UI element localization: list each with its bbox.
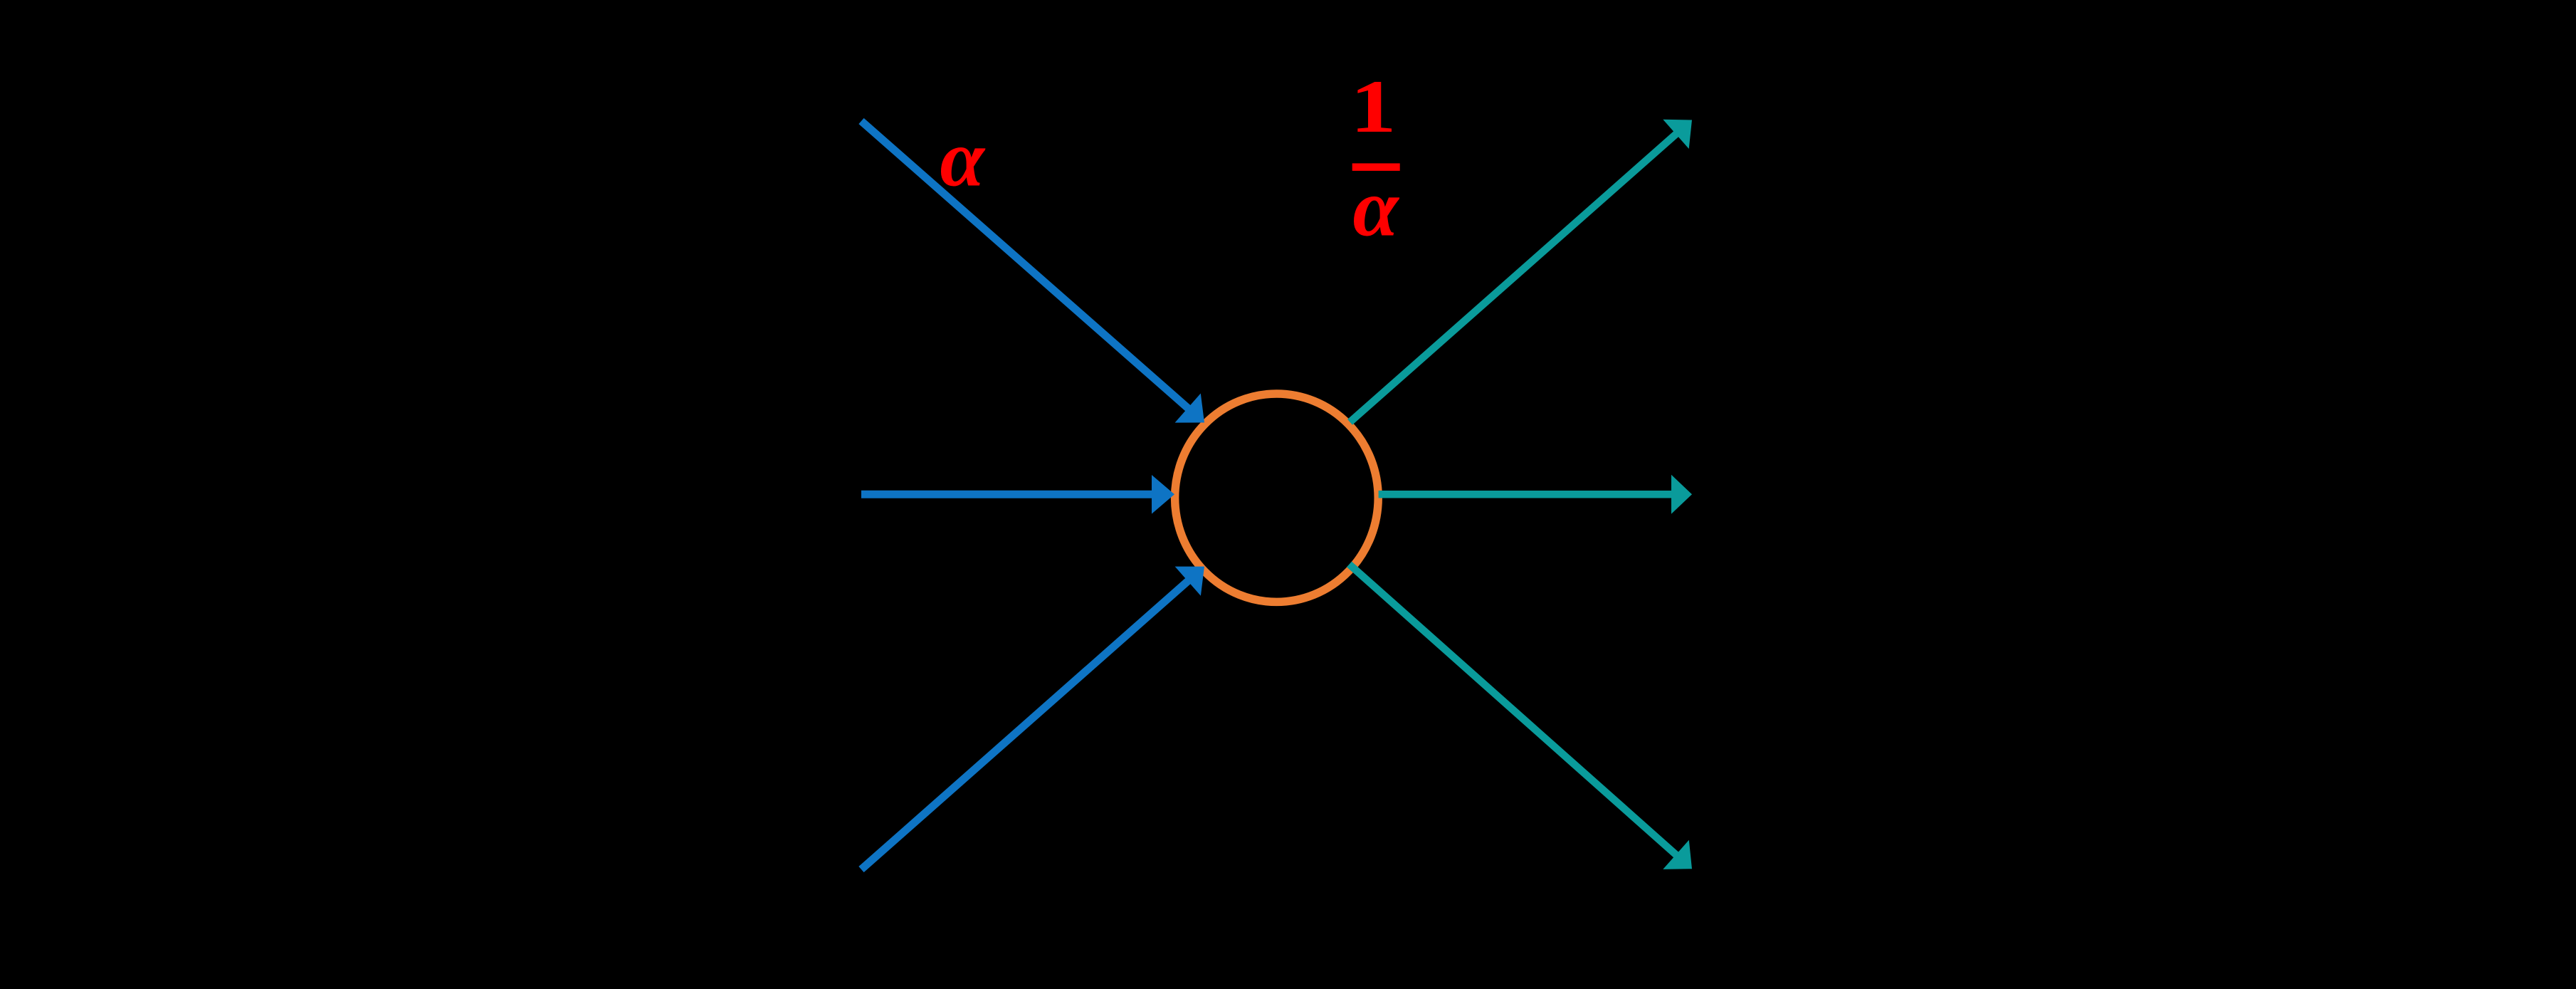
svg-text:α: α xyxy=(1353,163,1400,254)
fraction bar xyxy=(1352,163,1400,171)
svg-text:α: α xyxy=(940,115,986,204)
output arrow middle-right xyxy=(1379,475,1692,514)
svg-text:1: 1 xyxy=(1350,65,1397,148)
node circle (summing junction) xyxy=(1175,394,1379,602)
output arrow top-right (weight 1/α) xyxy=(1350,120,1693,422)
input arrow middle-left xyxy=(861,475,1174,514)
input arrow top-left (weight α) xyxy=(861,121,1204,423)
input arrow bottom-left xyxy=(861,567,1204,869)
output arrow bottom-right xyxy=(1350,565,1693,869)
